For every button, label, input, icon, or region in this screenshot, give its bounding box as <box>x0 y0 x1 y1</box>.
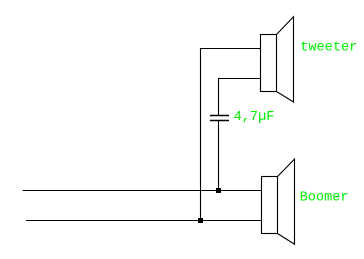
svg-text:Boomer: Boomer <box>300 191 349 206</box>
wire tweeter bottom terminal <box>219 78 261 80</box>
capacitor C1 plates <box>210 116 229 121</box>
wire tweeter bottom to capacitor top <box>218 78 220 116</box>
wire vertical from tweeter top to lower bus <box>200 48 202 221</box>
svg-text:tweeter: tweeter <box>300 41 357 56</box>
junction on lower bus <box>198 218 203 223</box>
wire tweeter top terminal <box>201 48 261 50</box>
speaker tweeter LS1 <box>261 17 294 102</box>
svg-text:4,7µF: 4,7µF <box>234 110 275 125</box>
wire upper bus <box>23 190 262 192</box>
wire capacitor bottom to upper bus <box>218 121 220 191</box>
speaker boomer LS2 <box>262 159 295 244</box>
junction on upper bus <box>216 188 221 193</box>
wire lower bus <box>26 220 262 222</box>
